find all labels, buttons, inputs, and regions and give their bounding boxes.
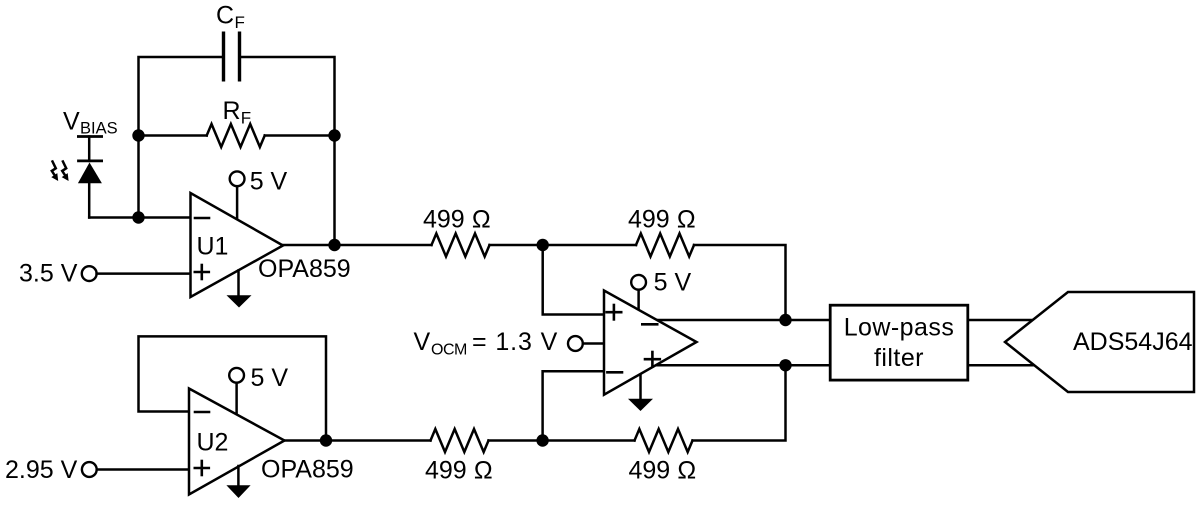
svg-text:C: C — [216, 2, 234, 30]
svg-text:V: V — [414, 328, 431, 356]
U3 input - pin mark — [607, 371, 622, 374]
photodiode D1 — [77, 137, 103, 218]
wire: junction B down chain to FDA - input — [543, 371, 604, 440]
wire: 2.95 V to U2 non-inverting input — [97, 468, 189, 471]
svg-text:499 Ω: 499 Ω — [425, 457, 493, 485]
U2 minus pin mark — [195, 411, 209, 414]
node: U2 output feedback junction — [320, 434, 332, 446]
wire: junction A down to FDA + input — [543, 245, 604, 315]
op-amp U2 — [189, 389, 285, 495]
wire: top feedback branch left (loop corner to CF) — [139, 57, 224, 136]
U2 feedback loop wire — [139, 336, 327, 440]
node A: top summing junction — [537, 239, 549, 251]
fully differential amplifier U3 — [604, 291, 697, 395]
U3 output + pin mark — [645, 352, 660, 367]
wire: photodiode to U1 inverting input — [89, 216, 190, 219]
svg-text:5 V: 5 V — [251, 364, 289, 392]
U3 input + pin mark — [607, 305, 622, 319]
svg-text:filter: filter — [874, 344, 924, 372]
ground (U2) — [226, 466, 250, 498]
label RF — [223, 97, 252, 128]
svg-text:BIAS: BIAS — [80, 120, 118, 138]
svg-text:F: F — [235, 13, 245, 32]
supply terminal 5 V (FDA) — [631, 275, 646, 311]
capacitor CF — [224, 32, 240, 82]
svg-text:499 Ω: 499 Ω — [629, 457, 697, 485]
wire: FDA output - (bottom) to LPF — [652, 364, 830, 367]
svg-text:Low-pass: Low-pass — [844, 314, 955, 342]
svg-text:3.5 V: 3.5 V — [19, 260, 78, 288]
svg-text:5 V: 5 V — [250, 168, 288, 196]
wire: LPF to ADC bottom — [968, 364, 1035, 367]
svg-text:499 Ω: 499 Ω — [628, 206, 696, 234]
svg-text:ADS54J64: ADS54J64 — [1073, 328, 1193, 356]
wire: LPF to ADC top — [968, 319, 1035, 322]
svg-text:OCM: OCM — [431, 342, 467, 359]
svg-text:U1: U1 — [197, 233, 229, 261]
light arrow 2 — [62, 162, 69, 182]
label VBIAS — [63, 108, 118, 138]
node: RF left junction — [132, 129, 144, 141]
wire: right loop vertical down to U1 output node — [333, 136, 336, 246]
svg-text:V: V — [63, 108, 80, 136]
svg-text:499 Ω: 499 Ω — [423, 206, 491, 234]
label VOCM = 1.3 V — [414, 328, 559, 359]
svg-text:5 V: 5 V — [654, 269, 692, 297]
resistor R4 (bottom feedback) — [635, 429, 693, 452]
wire: FDA output + (top) to LPF — [650, 319, 830, 322]
wire: top feedback branch right (CF to loop corner) — [240, 57, 335, 136]
ADC block ADS54J64 — [1005, 292, 1194, 392]
supply terminal 5 V (U2) — [229, 368, 244, 415]
U1 minus pin mark — [195, 217, 209, 220]
wire: R2 to R4 with junction B — [489, 439, 635, 442]
terminal: VOCM input — [568, 336, 583, 351]
svg-text:OPA859: OPA859 — [258, 255, 351, 283]
svg-text:R: R — [223, 97, 241, 125]
node: FDA bottom output junction — [779, 359, 791, 371]
U2 plus pin mark — [195, 461, 209, 475]
op-amp U1 — [191, 193, 284, 297]
wire: 3.5 V to U1 non-inverting input — [97, 272, 191, 275]
wire: left loop vertical down to inverting node — [137, 136, 140, 218]
terminal: 3.5 V input — [82, 266, 97, 281]
wire: RF branch right — [265, 134, 335, 137]
resistor R1 — [432, 234, 490, 257]
low-pass filter block — [830, 305, 968, 380]
wire: U2 output to R2 — [285, 439, 431, 442]
U1 plus pin mark — [195, 265, 209, 279]
label Low-pass filter — [844, 314, 955, 373]
node: FDA top output junction — [779, 314, 791, 326]
wire: RF branch left — [139, 134, 207, 137]
ground (FDA) — [628, 370, 653, 411]
resistor R2 — [431, 429, 489, 452]
wire: R1 to R3 with junction A — [490, 244, 637, 247]
U3 output - pin mark — [642, 323, 657, 326]
wire: R4 to bottom output node — [693, 365, 786, 440]
svg-text:OPA859: OPA859 — [261, 456, 354, 484]
wire: R3 to top output node — [694, 245, 786, 320]
svg-text:= 1.3 V: = 1.3 V — [472, 328, 558, 356]
wire: VOCM stub — [583, 342, 604, 345]
node: U1 output feedback junction — [328, 239, 340, 251]
label CF — [216, 2, 245, 33]
node B: bottom summing junction — [536, 434, 548, 446]
svg-text:2.95 V: 2.95 V — [5, 456, 78, 484]
ground (U1) — [227, 271, 252, 308]
light arrow 1 — [51, 162, 58, 182]
svg-text:U2: U2 — [197, 429, 229, 457]
VBIAS supply bar — [77, 135, 103, 138]
wire: U1 output to R1 — [283, 244, 432, 247]
supply terminal 5 V (U1) — [230, 171, 245, 219]
node: RF right junction — [328, 129, 340, 141]
node: inverting input junction — [132, 211, 144, 223]
resistor R3 (top feedback) — [636, 234, 694, 257]
resistor RF — [207, 124, 265, 147]
terminal: 2.95 V input — [82, 462, 97, 477]
